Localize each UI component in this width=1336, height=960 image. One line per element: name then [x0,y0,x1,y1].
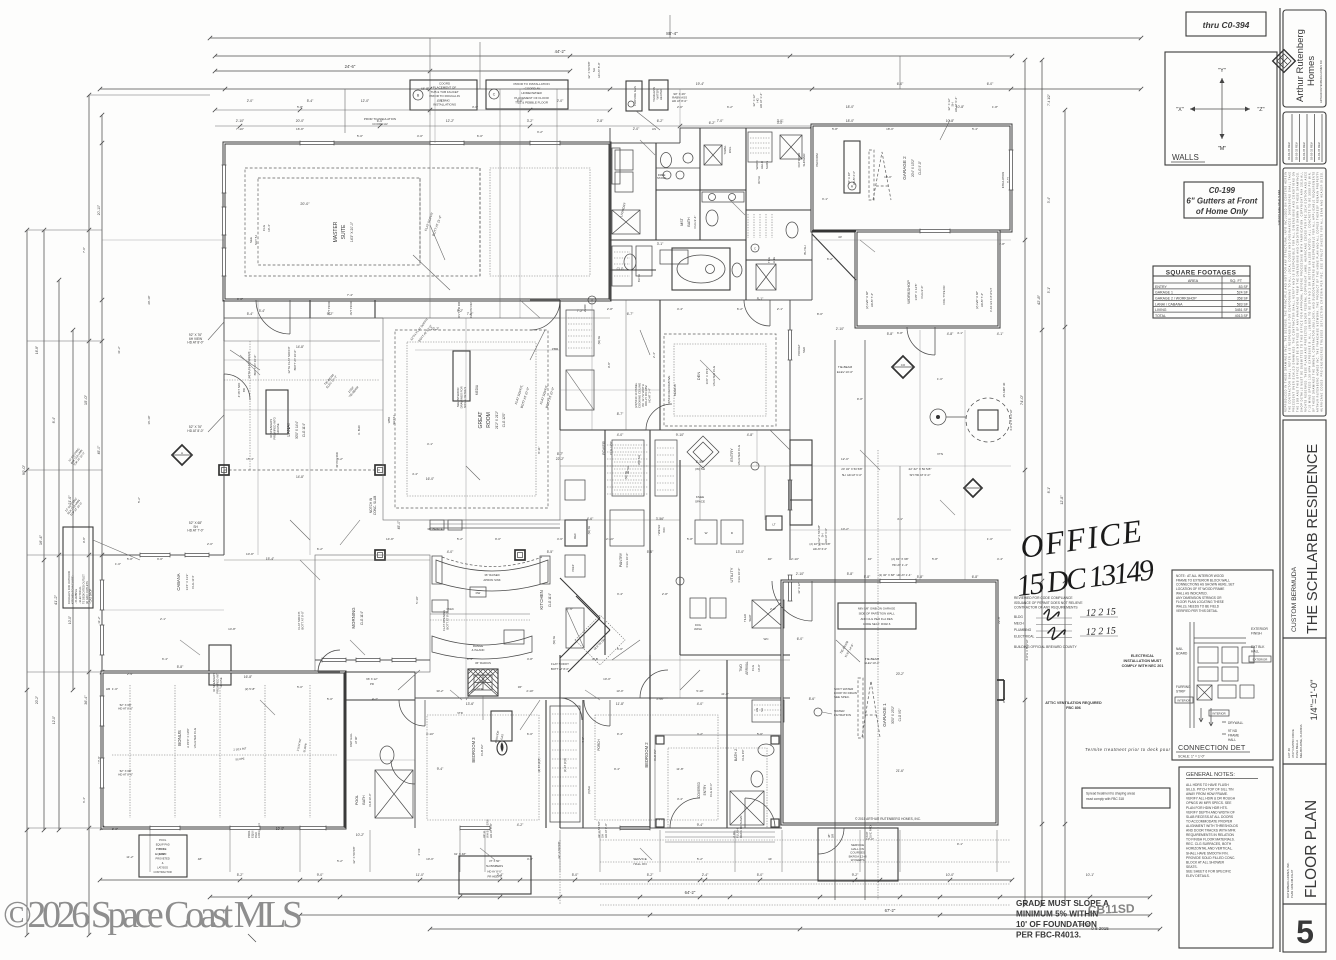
svg-text:MST: MST [680,217,684,225]
svg-text:ELEV 10'-0": ELEV 10'-0" [837,370,853,374]
svg-text:4' OF: 4' OF [417,848,421,855]
svg-text:ELECTRICAL INSTALLATION MUST C: ELECTRICAL INSTALLATION MUST COMPLY WITH… [1122,654,1165,668]
general notes box [1179,767,1273,948]
svg-text:5'-8": 5'-8" [864,575,871,579]
svg-text:(6)SH: (6)SH [587,786,591,794]
svg-text:"X": "X" [1176,107,1184,113]
svg-text:9'-1": 9'-1" [957,842,963,846]
svg-text:4'-0": 4'-0" [617,433,624,437]
svg-text:2'-10": 2'-10" [796,572,805,576]
svg-text:HURRICANE CODES. PRE-ENGINEERE: HURRICANE CODES. PRE-ENGINEERED TRUSSES.… [1321,172,1324,412]
svg-text:20'-10": 20'-10" [97,204,101,215]
svg-text:CLG 10'-0": CLG 10'-0" [737,568,741,583]
svg-text:14'4" X 11'2": 14'4" X 11'2" [185,574,189,591]
svg-text:A 15'0" X 19'0": A 15'0" X 19'0" [186,728,190,748]
svg-text:5'-2": 5'-2" [237,873,244,877]
svg-text:15'-4": 15'-4" [246,457,254,461]
svg-text:9'-4": 9'-4" [437,767,444,771]
svg-text:SCALE: 1" = 1'-0": SCALE: 1" = 1'-0" [1178,755,1206,759]
extra bottom ticks [238,878,242,882]
svg-text:CO: CO [901,363,906,367]
svg-text:25 AMP 30: 25 AMP 30 [1002,382,1006,397]
svg-text:3'-4": 3'-4" [677,797,683,801]
utility [679,460,681,655]
tankless water heater box [649,80,668,110]
svg-text:3'-2": 3'-2" [537,130,543,134]
central closet column [582,700,584,828]
svg-text:HD AT 6'-0": HD AT 6'-0" [813,547,827,551]
svg-text:32" X 12": 32" X 12" [797,582,801,593]
svg-text:5'-0": 5'-0" [327,697,333,701]
svg-text:5'-1": 5'-1" [757,297,764,301]
svg-text:PREP: PREP [571,564,575,571]
svg-text:12'TH FLAT SOFFIT: 12'TH FLAT SOFFIT [247,351,251,378]
svg-text:THE JOB AND THIS OFFICE MUST B: THE JOB AND THIS OFFICE MUST BE NOTIFIED… [1297,172,1300,412]
butler niche [566,608,584,648]
svg-text:22'-2": 22'-2" [431,327,440,331]
svg-text:5'-8": 5'-8" [127,557,133,561]
svg-text:4013 SF: 4013 SF [1235,314,1248,318]
svg-text:CLG 11'4": CLG 11'4" [191,575,195,588]
extra door arcs [318,650,340,672]
svg-text:8'-0": 8'-0" [817,312,823,316]
svg-text:BU SH: BU SH [637,274,641,282]
svg-text:7'-10": 7'-10" [236,127,244,131]
svg-text:52" X 68" HD AT 8'-0": 52" X 68" HD AT 8'-0" [118,703,134,710]
garage 1 [782,581,997,824]
svg-text:16'-10": 16'-10" [147,415,151,424]
dim lines bottom [100,879,1012,881]
leader lines [430,225,445,260]
svg-text:6'-0": 6'-0" [477,134,483,138]
provide gas box [626,81,642,111]
svg-text:6'-0": 6'-0" [897,82,904,86]
svg-text:VTR: VTR [457,711,463,715]
svg-text:1'-8": 1'-8" [999,242,1005,246]
svg-text:2'-4": 2'-4" [652,352,656,358]
lanai [223,300,225,341]
svg-text:CLG 9'0": CLG 9'0" [741,749,745,760]
svg-text:10 SPEAKERS PREWIRED INTO HOUS: 10 SPEAKERS PREWIRED INTO HOUSE [212,670,223,693]
svg-text:5'-0": 5'-0" [572,873,579,877]
treatment stamp [1082,788,1170,808]
svg-text:ENTRY: ENTRY [729,448,734,462]
svg-text:12' SQ CONC BLK COLUMN TOP AT: 12' SQ CONC BLK COLUMN TOP AT 10'-0" [64,496,84,517]
svg-text:16'-0": 16'-0" [426,477,435,481]
svg-text:PECOOM: PECOOM [815,153,819,167]
left margin connectors [27,229,102,231]
svg-text:FLAT OPENING BOTT AT 8'-0": FLAT OPENING BOTT AT 8'-0" [442,609,449,631]
svg-text:6'-2": 6'-2" [737,307,743,311]
svg-text:32" X 50 5/8": 32" X 50 5/8" [587,61,591,78]
svg-text:1'-0": 1'-0" [115,562,121,566]
svg-text:2'-8": 2'-8" [662,592,668,596]
svg-text:13'-0": 13'-0" [616,689,623,693]
svg-text:31' X 48": 31' X 48" [454,852,466,856]
svg-text:5'-10": 5'-10" [696,689,703,693]
svg-text:COORD AV: COORD AV [372,122,388,126]
svg-text:WBR: WBR [387,417,391,424]
svg-text:14'-8": 14'-8" [296,345,304,349]
svg-text:64'-2": 64'-2" [685,890,696,895]
svg-text:4'-8": 4'-8" [747,433,754,437]
svg-text:524 SF: 524 SF [1237,291,1248,295]
svg-text:SLOPE: SLOPE [302,743,308,753]
svg-text:BD: BD [242,388,246,392]
svg-text:5'-8": 5'-8" [847,572,854,576]
svg-text:30'0" X 14'4": 30'0" X 14'4" [295,421,299,439]
svg-text:BLDG: BLDG [1014,615,1023,619]
svg-text:2'-4": 2'-4" [127,672,133,676]
svg-text:10'-0": 10'-0" [946,873,955,877]
svg-text:C: C [493,93,496,97]
svg-text:CLG 9'-4": CLG 9'-4" [693,216,697,229]
svg-text:4'-10 3/4 X 8'-0"HT: 4'-10 3/4 X 8'-0"HT [989,288,993,313]
service note box bottom center [459,856,531,894]
svg-text:FRAME: FRAME [1228,734,1239,738]
svg-text:PLUMBING: PLUMBING [1014,628,1032,632]
svg-text:"Y": "Y" [1218,68,1226,74]
svg-text:ENTRY: ENTRY [1155,285,1167,289]
floor plan block [1283,764,1326,904]
square footages table [1153,266,1250,318]
svg-text:CLG: CLG [617,267,624,271]
svg-text:D: D [731,531,734,535]
svg-text:THE CONTRACTOR SHALL REFER & I: THE CONTRACTOR SHALL REFER & IS RESPONSI… [1289,172,1292,412]
svg-text:LAUNDRY: LAUNDRY [619,201,627,218]
svg-text:10'-8": 10'-8" [246,552,254,556]
top strip extra detail [612,246,632,286]
svg-text:SH: SH [592,68,596,72]
svg-text:DOG: DOG [695,623,701,627]
svg-text:10'-0": 10'-0" [866,837,874,841]
dim line top 24-6 [215,70,570,72]
svg-text:CLB 10'-0": CLB 10'-0" [368,793,372,806]
svg-text:5H HD AT 6'-0": 5H HD AT 6'-0" [842,473,862,477]
svg-text:SHT 5J: SHT 5J [254,235,258,245]
svg-text:Homes: Homes [1306,56,1317,86]
svg-text:(2) LVR" X 68": (2) LVR" X 68" [975,291,979,309]
svg-text:(2) 5'-8": (2) 5'-8" [245,687,255,691]
svg-text:83 SF: 83 SF [1239,285,1248,289]
master windows left [221,165,226,193]
svg-text:WARD: WARD [755,160,759,170]
svg-text:EXT BLK: EXT BLK [1251,645,1265,649]
svg-text:40': 40' [838,235,842,239]
svg-text:PART HALL: PART HALL [349,733,353,747]
revision block [1283,112,1326,164]
svg-text:36'-4": 36'-4" [84,695,88,705]
svg-text:HD AT 7'-4": HD AT 7'-4" [980,293,984,307]
svg-text:8'-4": 8'-4" [52,417,56,423]
svg-text:3'-4": 3'-4" [617,592,623,596]
svg-text:PR: PR [370,682,374,686]
svg-text:ELECTRICAL: ELECTRICAL [1014,635,1035,639]
svg-text:2'-0": 2'-0" [677,105,683,109]
svg-text:4'-8": 4'-8" [527,657,533,661]
svg-text:6'-4": 6'-4" [82,797,86,803]
svg-text:REPRODUCED IN THESE DRAWINGS I: REPRODUCED IN THESE DRAWINGS INCL. THE D… [1285,172,1288,412]
svg-text:CLG 12'0": CLG 12'0" [502,413,506,428]
svg-text:2'-0": 2'-0" [112,827,118,831]
svg-text:4'-0"H X 8'-0"HT: 4'-0"H X 8'-0"HT [1009,409,1013,431]
svg-text:TIE-BEAM ELEV 10'-0": TIE-BEAM ELEV 10'-0" [322,372,338,389]
svg-text:44': 44' [768,857,772,861]
svg-text:(2) 32" X 68" HD AT 1'-4": (2) 32" X 68" HD AT 1'-4" [879,573,912,577]
svg-text:SEE: SEE [249,237,253,243]
svg-text:30'0" X 23'2": 30'0" X 23'2" [891,706,895,724]
svg-text:VTN: VTN [937,452,943,456]
svg-text:(2) SH (2)(T): (2) SH (2)(T) [538,758,541,772]
svg-text:18'-0": 18'-0" [846,105,855,109]
svg-text:UTILITY: UTILITY [729,567,734,582]
svg-text:11'-2": 11'-2" [97,616,101,623]
court circles [966,398,1010,442]
svg-text:9T ND: 9T ND [1228,729,1238,733]
svg-text:A: A [591,299,593,303]
svg-text:10'-4": 10'-4" [267,224,271,232]
svg-text:36" RADIUS: 36" RADIUS [475,661,491,665]
svg-text:10 SPEAKERS PREWIRED INTO HOUS: 10 SPEAKERS PREWIRED INTO HOUSE [269,416,280,439]
svg-text:ROOM: ROOM [486,412,492,428]
svg-text:11'-8": 11'-8" [616,702,625,706]
svg-text:3'-0": 3'-0" [157,557,163,561]
svg-text:COVERED: COVERED [697,781,701,797]
svg-text:5'-2": 5'-2" [457,537,463,541]
svg-text:18'-0": 18'-0" [884,175,892,179]
svg-text:22'-8": 22'-8" [997,616,1001,624]
svg-text:3'-2": 3'-2" [697,732,703,736]
cabana [102,554,224,556]
svg-text:5'-8": 5'-8" [297,105,303,109]
steps below porch [665,831,775,833]
range counter [432,636,532,659]
svg-text:BEAM-45: BEAM-45 [673,384,677,396]
svg-text:18'-0": 18'-0" [846,119,855,123]
svg-text:3'-2": 3'-2" [527,119,534,123]
svg-text:POCKET: POCKET [797,344,801,356]
svg-text:RING: RING [728,147,732,153]
entry bump [790,440,812,525]
svg-text:HD AT 7'-4": HD AT 7'-4" [870,293,874,307]
svg-text:14'-8": 14'-8" [228,627,236,631]
svg-text:2'-1": 2'-1" [160,617,166,621]
svg-text:(2)5X10 DECORATIVE: (2)5X10 DECORATIVE [667,376,671,405]
bedroom 3 [545,700,547,828]
svg-text:PORCH: PORCH [597,739,601,751]
svg-text:1/4"=1'-0": 1/4"=1'-0" [1309,679,1320,720]
svg-text:52" X 76" HD AT 8'-0": 52" X 76" HD AT 8'-0" [187,425,204,433]
svg-text:WASH: WASH [694,627,702,631]
svg-text:12/07/15 MAF 08:41:5 MM: 12/07/15 MAF 08:41:5 MM [1277,190,1281,226]
svg-text:6'-7": 6'-7" [627,312,634,316]
svg-text:CLG 11'4": CLG 11'4" [548,593,552,607]
lanai columns [375,465,385,475]
svg-text:SEAT: SEAT [748,614,752,621]
svg-text:12'-0": 12'-0" [52,716,56,724]
svg-text:4'-0": 4'-0" [447,550,454,554]
svg-text:NAIL: NAIL [1176,647,1183,651]
morning [315,555,430,672]
svg-text:12'TH FLAT SOFFIT: 12'TH FLAT SOFFIT [287,346,291,373]
svg-text:13'-6": 13'-6" [466,702,475,706]
svg-text:2'-0": 2'-0" [557,99,564,103]
svg-text:4'-0": 4'-0" [697,702,704,706]
svg-text:5'-2": 5'-2" [697,857,703,861]
svg-text:DEN: DEN [696,372,701,381]
svg-text:POOL: POOL [156,847,165,851]
svg-text:03-03-15 REV: 03-03-15 REV [1310,142,1314,160]
svg-text:5'-6": 5'-6" [757,732,763,736]
svg-text:9'-8": 9'-8" [82,537,86,543]
driveway dashes [600,839,1010,841]
svg-text:VAULTED CLG: VAULTED CLG [193,727,197,748]
svg-text:5'-4": 5'-4" [307,99,314,103]
svg-text:HALL: HALL [1251,650,1259,654]
svg-text:PANTRY: PANTRY [619,552,623,567]
svg-text:SQ. FT: SQ. FT [1230,279,1243,283]
svg-text:5'-5": 5'-5" [547,550,554,554]
svg-text:REF: REF [573,533,577,539]
svg-text:16'-4": 16'-4" [38,534,43,545]
svg-text:10'-0": 10'-0" [603,677,611,681]
svg-text:(23)5X10 14 PANEL COOKING CEIL: (23)5X10 14 PANEL COOKING CEILING 8V 12 … [634,382,652,408]
svg-text:INTERIOR: INTERIOR [1177,699,1190,703]
svg-text:TANKLESS WATER HEATER: TANKLESS WATER HEATER [652,86,663,102]
svg-text:CLG 10'-0": CLG 10'-0" [709,783,713,797]
extra leader diagonals [240,355,260,375]
svg-text:20'-10": 20'-10" [147,295,151,304]
svg-text:thru C0-394: thru C0-394 [1203,20,1250,30]
svg-text:10'-0": 10'-0" [757,664,761,672]
svg-text:30'-2": 30'-2" [436,689,443,693]
svg-text:2'-0": 2'-0" [633,127,640,131]
svg-text:1'-6": 1'-6" [567,607,573,611]
svg-text:1'-0": 1'-0" [112,687,118,691]
svg-text:20'4" X 13'2": 20'4" X 13'2" [911,159,915,177]
svg-text:5'-8": 5'-8" [932,557,938,561]
svg-text:BUILDING OFFICIAL BREVARD COUN: BUILDING OFFICIAL BREVARD COUNTY [1014,645,1077,649]
svg-text:4'-4": 4'-4" [997,557,1003,561]
svg-text:3451 SF: 3451 SF [1235,308,1248,312]
svg-text:BATH 2: BATH 2 [734,749,738,761]
svg-text:88'-4": 88'-4" [666,31,678,36]
svg-text:SHT 5J: SHT 5J [392,415,396,425]
svg-text:3'-56": 3'-56" [656,697,664,701]
svg-text:STRIP: STRIP [1176,690,1185,694]
svg-text:KITCHEN: KITCHEN [539,590,544,609]
svg-text:HB: HB [106,687,110,691]
svg-text:3'-56": 3'-56" [656,517,665,521]
svg-text:14'3" X 20'-0": 14'3" X 20'-0" [350,221,354,242]
dim lines left [26,230,28,935]
svg-text:BU SH: BU SH [803,245,807,254]
svg-text:66' X 12": 66' X 12" [366,677,378,681]
svg-text:8'-6": 8'-6" [809,697,816,701]
svg-text:45'-0": 45'-0" [97,445,101,454]
outdoor kitchen box [63,527,93,608]
svg-text:GREAT: GREAT [478,412,484,429]
svg-text:3'-0": 3'-0" [472,105,478,109]
svg-text:0 8 2015: 0 8 2015 [1091,926,1109,931]
svg-text:8'-1": 8'-1" [1047,487,1051,493]
svg-text:FILTRATION: FILTRATION [834,713,851,717]
svg-text:32" X 12" HG HD AT 1'-4": 32" X 12" HG HD AT 1'-4" [752,92,763,108]
svg-text:CLG 10'-0": CLG 10'-0" [625,553,629,568]
svg-text:6'-0": 6'-0" [527,732,533,736]
svg-text:5'-0": 5'-0" [357,134,363,138]
svg-text:3 5/12 INT: 3 5/12 INT [296,738,303,752]
svg-text:FOYER: FOYER [601,441,606,455]
svg-text:2'-10": 2'-10" [791,557,799,561]
svg-text:7'-0": 7'-0" [82,247,86,253]
svg-text:NOTCH IN CONC. SLAB: NOTCH IN CONC. SLAB [369,495,377,515]
svg-text:6'-2": 6'-2" [709,121,716,125]
svg-text:4'-6": 4'-6" [587,517,594,521]
svg-text:(2) SH (2)(T): (2) SH (2)(T) [564,758,567,772]
svg-text:16'-8": 16'-8" [296,127,304,131]
svg-text:FLAT SOFFIT, BOTT AT 8'-0": FLAT SOFFIT, BOTT AT 8'-0" [297,610,304,629]
svg-text:18'-0": 18'-0" [886,127,894,131]
svg-text:36" X 48": 36" X 48" [847,172,851,184]
svg-text:20'-0": 20'-0" [300,202,310,206]
svg-text:FINISH: FINISH [1251,632,1262,636]
svg-text:WD SH: WD SH [637,455,641,465]
svg-text:BOTT AT 10'-0": BOTT AT 10'-0" [253,355,257,376]
svg-text:583 SF: 583 SF [1237,302,1248,306]
svg-text:7-10 WIND SPEED 130 MPH EXPOSU: 7-10 WIND SPEED 130 MPH EXPOSURE B. ALL … [1309,172,1312,412]
svg-text:POOL EQUIP PAD TO BE 10X20 PRO: POOL EQUIP PAD TO BE 10X20 PROVETED & LA… [154,838,173,874]
svg-text:BOTT AT 11'-4": BOTT AT 11'-4" [431,215,442,237]
svg-text:SUITE: SUITE [341,224,347,239]
svg-text:B: B [417,94,420,98]
gallery diagonals [560,578,610,672]
svg-text:WALLS: WALLS [1172,153,1199,162]
svg-text:10'-8": 10'-8" [956,105,965,109]
svg-text:(W) SH: (W) SH [695,467,705,471]
svg-text:9'-1": 9'-1" [1002,697,1006,703]
svg-text:4'X8' SVC PAD: 4'X8' SVC PAD [865,825,872,838]
svg-text:10'-2": 10'-2" [356,833,365,837]
svg-text:TWO: TWO [739,664,743,672]
svg-text:CLG 9'-0": CLG 9'-0" [918,161,922,175]
svg-text:5'-0": 5'-0" [297,685,303,689]
svg-text:11'-0": 11'-0" [416,873,425,877]
svg-text:C: C [754,247,756,251]
misc small symbols [751,462,759,470]
svg-text:15'-4": 15'-4" [266,557,275,561]
svg-text:42'-8": 42'-8" [1036,294,1041,305]
svg-text:3'-1": 3'-1" [822,197,828,201]
dim line top full [100,88,1141,90]
svg-text:LANAI / CABANA: LANAI / CABANA [1155,302,1183,306]
svg-text:10'-0": 10'-0" [68,616,72,624]
svg-text:6'-0": 6'-0" [987,82,994,86]
svg-text:03-03-15 REV: 03-03-15 REV [1317,142,1321,160]
svg-text:PROR TO INSULATION: PROR TO INSULATION [364,117,396,121]
svg-text:VAULTED CLG: VAULTED CLG [737,444,741,465]
pool equip note box [139,835,187,877]
svg-text:5'-2": 5'-2" [337,457,343,461]
svg-text:WC: WC [764,637,770,641]
svg-text:2'-10": 2'-10" [526,689,533,693]
svg-text:OVT PR DR: OVT PR DR [349,301,353,316]
svg-text:BOTT AT 10'-0": BOTT AT 10'-0" [293,350,297,371]
svg-text:TOTAL: TOTAL [1155,314,1166,318]
svg-text:(2) LVR" X 68": (2) LVR" X 68" [865,291,869,309]
svg-text:2'-8": 2'-8" [607,307,613,311]
svg-text:CLG 12'0": CLG 12'0" [609,441,613,455]
